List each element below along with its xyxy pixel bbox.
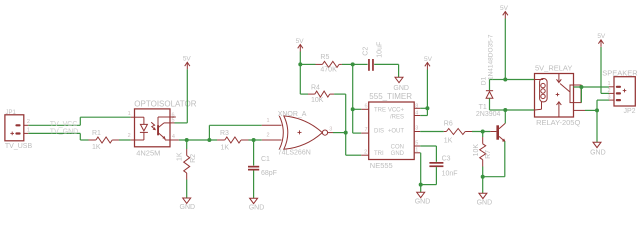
svg-text:/RES: /RES bbox=[390, 115, 404, 121]
resistor R2 bbox=[177, 140, 197, 180]
junction R5 tap bbox=[298, 62, 302, 66]
svg-text:68pF: 68pF bbox=[261, 170, 277, 177]
svg-text:74LS266N: 74LS266N bbox=[278, 149, 311, 156]
svg-text:GND: GND bbox=[180, 204, 196, 211]
resistor R6 bbox=[444, 120, 472, 144]
wire 5V to JP2 pin2 bbox=[601, 47, 609, 93]
svg-text:JP1: JP1 bbox=[6, 110, 17, 116]
svg-text:4: 4 bbox=[415, 111, 418, 117]
resistor R5 bbox=[300, 54, 342, 73]
supply 5V relay bbox=[500, 5, 509, 19]
svg-text:C2: C2 bbox=[363, 47, 370, 56]
ground above 555 bbox=[393, 77, 409, 92]
wire R1 to optoisolator bbox=[119, 139, 131, 141]
svg-text:R6: R6 bbox=[444, 120, 453, 127]
svg-text:5V: 5V bbox=[597, 33, 606, 40]
svg-text:10nF: 10nF bbox=[442, 171, 458, 178]
junction aux ground bbox=[595, 108, 599, 112]
wire 5V down to R4 row bbox=[300, 52, 308, 95]
wire R3 to XNOR pin2 bbox=[249, 139, 262, 141]
svg-text:3: 3 bbox=[607, 95, 610, 101]
svg-text:4: 4 bbox=[172, 134, 175, 140]
svg-text:3: 3 bbox=[329, 127, 332, 133]
wire R2 to ground bbox=[186, 180, 188, 199]
svg-text:5V: 5V bbox=[183, 56, 192, 63]
svg-text:10uF: 10uF bbox=[377, 42, 384, 58]
wire C3 to ground rail bbox=[421, 167, 437, 185]
junction C1 tap bbox=[252, 138, 256, 142]
svg-text:1N4148DO35-7: 1N4148DO35-7 bbox=[488, 34, 495, 80]
svg-text:3: 3 bbox=[415, 126, 418, 132]
svg-text:2: 2 bbox=[266, 133, 269, 139]
ground under C1 bbox=[249, 198, 265, 211]
svg-text:DIS: DIS bbox=[374, 129, 384, 135]
svg-text:5V: 5V bbox=[500, 5, 509, 12]
diode D1 1N4148 bbox=[481, 34, 495, 110]
svg-text:2: 2 bbox=[364, 149, 367, 155]
wire 555 GND pin to ground bbox=[419, 153, 422, 193]
connector JP2 speaker bbox=[602, 68, 638, 115]
ground under R2 bbox=[180, 198, 196, 211]
supply 5V 555 bbox=[424, 56, 433, 70]
svg-text:VCC+: VCC+ bbox=[388, 108, 405, 114]
transistor T1 2N3904 bbox=[476, 104, 506, 142]
junction XNOR output bbox=[344, 131, 348, 135]
svg-text:TV_GND: TV_GND bbox=[50, 128, 78, 135]
junction emitter rail bbox=[481, 175, 485, 179]
ground under 555 bbox=[415, 192, 431, 205]
wire 5V to opto pin5 bbox=[175, 69, 188, 123]
svg-text:TRI: TRI bbox=[374, 151, 384, 157]
wire 5V to VCC and /RES bbox=[420, 70, 427, 116]
svg-text:10K: 10K bbox=[473, 144, 480, 157]
svg-text:1K: 1K bbox=[444, 137, 453, 144]
resistor R7 bbox=[473, 132, 492, 167]
svg-text:GND: GND bbox=[415, 199, 431, 206]
svg-text:1K: 1K bbox=[92, 144, 101, 151]
svg-text:GND: GND bbox=[249, 205, 265, 212]
supply 5V opto bbox=[183, 56, 192, 70]
svg-text:R2: R2 bbox=[190, 154, 197, 163]
xnor gate 74LS266N bbox=[262, 111, 333, 157]
svg-text:SPEAKER: SPEAKER bbox=[602, 68, 638, 77]
capacitor C2 bbox=[353, 42, 384, 71]
ground under R7 bbox=[477, 193, 493, 206]
junction node bbox=[351, 62, 355, 66]
wire TV_VCC net bbox=[28, 117, 130, 128]
supply 5V speaker bbox=[597, 33, 606, 47]
wire R6 to base bbox=[472, 131, 490, 133]
svg-text:5V_RELAY: 5V_RELAY bbox=[535, 63, 572, 72]
wire opto emitter net bbox=[179, 139, 217, 141]
svg-text:JP2: JP2 bbox=[624, 108, 636, 115]
resistor R3 bbox=[217, 130, 249, 151]
junction coil bottom bbox=[503, 108, 507, 112]
svg-text:R1: R1 bbox=[92, 130, 101, 137]
svg-text:470K: 470K bbox=[320, 66, 337, 73]
wire 555 OUT bbox=[420, 131, 444, 133]
resistor R4 bbox=[308, 84, 334, 103]
wire CON to C3 bbox=[420, 146, 436, 162]
wire to 555 TRI bbox=[346, 154, 362, 156]
supply 5V pullups bbox=[296, 38, 305, 51]
svg-text:5: 5 bbox=[172, 118, 175, 124]
wire C2 to ground bbox=[374, 64, 398, 77]
svg-text:+OUT: +OUT bbox=[388, 129, 405, 135]
svg-text:2: 2 bbox=[27, 119, 30, 125]
svg-text:TV_USB: TV_USB bbox=[5, 143, 33, 150]
svg-text:10K: 10K bbox=[311, 97, 324, 104]
svg-text:1: 1 bbox=[266, 118, 269, 124]
svg-text:R7: R7 bbox=[485, 150, 492, 159]
junction TRE tap bbox=[351, 107, 355, 111]
junction R7 tap bbox=[481, 130, 485, 134]
svg-text:TV_VCC: TV_VCC bbox=[50, 121, 78, 128]
svg-text:CON: CON bbox=[391, 144, 404, 150]
svg-text:7: 7 bbox=[364, 127, 367, 133]
wire R5 to node bbox=[342, 63, 353, 65]
svg-text:GND: GND bbox=[590, 150, 606, 157]
svg-text:TRE: TRE bbox=[374, 108, 386, 114]
svg-text:R3: R3 bbox=[220, 130, 229, 137]
svg-text:C3: C3 bbox=[442, 156, 451, 163]
svg-text:5V: 5V bbox=[296, 38, 305, 45]
wire coil bottom row bbox=[490, 109, 535, 111]
wire relay common to JP2 pin1 bbox=[574, 87, 610, 103]
svg-text:XNOR_A: XNOR_A bbox=[278, 111, 307, 118]
wire emitter bbox=[483, 141, 505, 176]
svg-text:RELAY-205Q: RELAY-205Q bbox=[536, 118, 580, 127]
svg-text:4N25M: 4N25M bbox=[136, 148, 160, 157]
connector JP1 bbox=[5, 110, 33, 150]
wire coil top row bbox=[490, 79, 535, 81]
wire 5V to coil row bbox=[504, 19, 506, 80]
resistor R1 bbox=[89, 130, 120, 151]
svg-text:2: 2 bbox=[128, 133, 131, 139]
ground right bbox=[590, 142, 606, 156]
svg-text:2N3904: 2N3904 bbox=[476, 111, 501, 118]
optoisolator 4N25M bbox=[128, 100, 197, 158]
svg-text:8: 8 bbox=[415, 104, 418, 110]
junction pin1 feed bbox=[207, 138, 211, 142]
svg-text:1: 1 bbox=[607, 81, 610, 87]
svg-text:1: 1 bbox=[415, 147, 418, 153]
svg-text:5V: 5V bbox=[424, 56, 433, 63]
wire C1 to ground bbox=[253, 171, 255, 199]
svg-text:NE555: NE555 bbox=[370, 161, 393, 170]
svg-text:GND: GND bbox=[477, 199, 493, 206]
capacitor C1 bbox=[248, 140, 277, 177]
svg-text:C1: C1 bbox=[261, 156, 270, 163]
junction VCC bbox=[425, 106, 429, 110]
capacitor C3 bbox=[429, 156, 457, 178]
svg-text:R4: R4 bbox=[311, 84, 320, 91]
svg-text:1K: 1K bbox=[221, 145, 230, 152]
svg-text:6: 6 bbox=[364, 103, 367, 109]
svg-text:GND: GND bbox=[391, 151, 405, 157]
ic 555 NE555 bbox=[361, 92, 420, 170]
svg-text:1: 1 bbox=[128, 111, 131, 117]
junction relay common bbox=[579, 85, 583, 89]
wire R4 to XNOR output net bbox=[334, 94, 346, 155]
wire relay aux to ground net bbox=[585, 100, 609, 142]
junction R2 tap bbox=[185, 138, 189, 142]
wire XNOR output bbox=[333, 132, 346, 134]
svg-text:D1: D1 bbox=[481, 76, 488, 85]
svg-text:R5: R5 bbox=[320, 54, 329, 61]
svg-text:1: 1 bbox=[27, 127, 30, 133]
svg-text:5: 5 bbox=[415, 141, 418, 147]
junction coil top bbox=[503, 78, 507, 82]
wire collector bbox=[504, 110, 506, 123]
wire node to TRE and DIS bbox=[353, 64, 362, 133]
svg-text:555_TIMER: 555_TIMER bbox=[369, 92, 412, 101]
wire TV_GND net bbox=[28, 128, 88, 140]
wire to XNOR pin1 bbox=[209, 125, 261, 140]
wire R7 to ground bbox=[482, 167, 484, 194]
svg-text:2: 2 bbox=[607, 88, 610, 94]
junction ground rail bbox=[419, 183, 423, 187]
svg-text:GND: GND bbox=[393, 85, 409, 92]
svg-text:1K: 1K bbox=[177, 152, 184, 161]
relay RELAY-205Q bbox=[535, 63, 586, 127]
